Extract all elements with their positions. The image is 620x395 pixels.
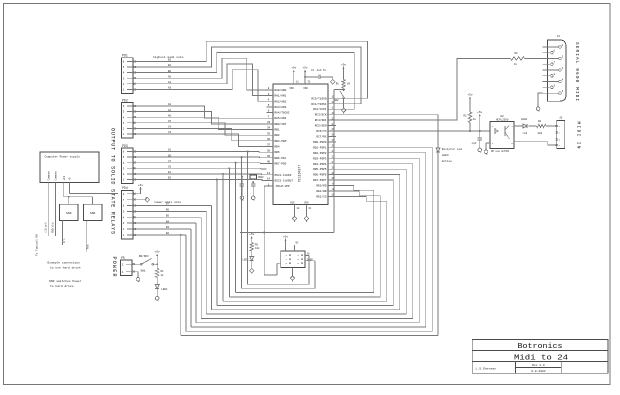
svg-text:1k: 1k	[161, 273, 165, 277]
svg-text:B0: B0	[168, 70, 172, 73]
svg-text:VDD: VDD	[289, 87, 294, 90]
svg-text:A4: A4	[168, 81, 172, 84]
svg-text:+5v: +5v	[341, 63, 346, 66]
svg-text:39: 39	[267, 155, 271, 158]
svg-text:SSR switches Power: SSR switches Power	[49, 279, 82, 283]
svg-text:C3: C3	[168, 131, 172, 134]
svg-text:PD2: PD2	[122, 98, 128, 102]
svg-text:C7: C7	[168, 160, 172, 163]
svg-text:RA4/T0CKI: RA4/T0CKI	[275, 111, 290, 115]
svg-text:A1: A1	[168, 109, 172, 112]
svg-text:1k: 1k	[514, 62, 518, 66]
svg-text:RD7-PSP7: RD7-PSP7	[313, 179, 327, 182]
svg-text:VDD: VDD	[303, 87, 308, 90]
svg-text:RD0-PSP0: RD0-PSP0	[313, 141, 327, 144]
svg-text:D0: D0	[168, 154, 172, 157]
svg-text:PD3: PD3	[122, 144, 128, 148]
svg-text:RB1: RB1	[275, 129, 280, 132]
svg-text:RB4: RB4	[275, 146, 280, 149]
svg-text:RB2: RB2	[275, 134, 280, 137]
svg-text:38: 38	[267, 149, 271, 152]
svg-text:Rev 1.0: Rev 1.0	[532, 364, 545, 367]
svg-text:RC1/T1OSI: RC1/T1OSI	[311, 102, 326, 106]
svg-text:A2: A2	[168, 103, 172, 106]
svg-text:.1uF: .1uF	[471, 142, 477, 145]
svg-text:R2: R2	[463, 115, 467, 118]
svg-text:LED3: LED3	[442, 154, 449, 157]
svg-text:RC3/SCK: RC3/SCK	[315, 113, 327, 117]
svg-text:RB5: RB5	[275, 151, 280, 154]
svg-text:33: 33	[267, 121, 271, 124]
svg-text:J4: J4	[557, 35, 561, 38]
svg-text:To Typical HD: To Typical HD	[35, 234, 39, 256]
svg-text:RB7-PGD: RB7-PGD	[275, 163, 287, 166]
svg-text:+12: +12	[63, 175, 66, 180]
svg-text:+5v: +5v	[155, 251, 160, 254]
svg-text:SERIAL 9600 MIDI: SERIAL 9600 MIDI	[574, 42, 579, 101]
svg-text:RD5-PSP5: RD5-PSP5	[313, 168, 327, 171]
svg-text:red: red	[523, 131, 528, 135]
svg-text:+5v: +5v	[249, 233, 254, 236]
svg-text:ON/OFF: ON/OFF	[139, 254, 149, 258]
svg-text:L.S.Sherman: L.S.Sherman	[476, 367, 497, 371]
svg-text:RD3-PSP3: RD3-PSP3	[313, 157, 327, 160]
svg-text:Midi to 24: Midi to 24	[514, 354, 569, 362]
svg-text:+5v: +5v	[138, 184, 143, 187]
svg-text:to hard drive.: to hard drive.	[50, 284, 75, 288]
svg-text:C6: C6	[168, 166, 172, 169]
svg-text:PD1: PD1	[122, 54, 128, 58]
svg-text:RE0/RD: RE0/RD	[316, 184, 326, 188]
svg-text:R4: R4	[538, 120, 542, 123]
svg-text:10k: 10k	[255, 247, 260, 250]
svg-text:Active: Active	[442, 159, 452, 163]
svg-text:RC5/SDO: RC5/SDO	[315, 124, 327, 128]
svg-text:RC7/RX: RC7/RX	[316, 135, 326, 139]
svg-text:+5: +5	[68, 177, 71, 181]
svg-text:C3 .1uF 5v: C3 .1uF 5v	[311, 69, 327, 72]
svg-text:+5v: +5v	[291, 67, 296, 70]
svg-text:RE2/CS: RE2/CS	[316, 195, 326, 199]
svg-text:B1: B1	[168, 64, 172, 67]
svg-text:4MHz: 4MHz	[258, 176, 264, 179]
svg-text:GND(blk): GND(blk)	[52, 221, 55, 233]
svg-text:A3: A3	[168, 87, 172, 90]
svg-text:PD4: PD4	[122, 186, 128, 190]
svg-text:RB0/INT: RB0/INT	[275, 122, 287, 126]
svg-text:SSR: SSR	[90, 212, 96, 215]
svg-text:Botronics: Botronics	[518, 343, 563, 351]
svg-text:DP use W/PIN: DP use W/PIN	[491, 150, 510, 153]
svg-text:U2: U2	[500, 115, 504, 118]
svg-text:C5: C5	[168, 120, 172, 123]
svg-text:A5: A5	[168, 75, 172, 78]
svg-text:-MCLR-VPP: -MCLR-VPP	[275, 185, 290, 188]
svg-text:OSC1-CLKIN: OSC1-CLKIN	[275, 174, 292, 177]
svg-text:R1: R1	[161, 270, 165, 273]
svg-text:A0: A0	[168, 114, 172, 117]
svg-text:P5: P5	[121, 256, 125, 260]
svg-text:Resistor Led: Resistor Led	[442, 147, 462, 151]
svg-text:Example connection: Example connection	[48, 261, 81, 265]
svg-text:C4: C4	[168, 126, 172, 129]
svg-text:RE1/WR: RE1/WR	[316, 189, 326, 193]
svg-text:SW2: SW2	[334, 99, 339, 102]
svg-text:13: 13	[267, 172, 271, 175]
svg-text:PIC16F877: PIC16F877	[298, 165, 302, 182]
svg-text:SSR: SSR	[66, 212, 72, 215]
svg-text:OSC2-CLKOUT: OSC2-CLKOUT	[275, 180, 294, 183]
svg-text:R3: R3	[515, 52, 519, 55]
svg-text:RB3-PGM: RB3-PGM	[275, 140, 287, 143]
svg-text:RC2/CCP1: RC2/CCP1	[313, 107, 327, 111]
svg-text:LED1: LED1	[161, 288, 168, 291]
svg-text:1k: 1k	[473, 118, 477, 121]
svg-text:RA5/AN4: RA5/AN4	[275, 116, 287, 120]
svg-text:+5v: +5v	[283, 235, 288, 238]
svg-text:37: 37	[267, 144, 271, 147]
svg-text:VSS: VSS	[304, 201, 309, 204]
svg-text:34: 34	[267, 127, 271, 130]
svg-text:R6: R6	[336, 83, 340, 86]
svg-text:J3: J3	[559, 117, 563, 120]
svg-text:RD6-PSP6: RD6-PSP6	[313, 174, 327, 177]
svg-text:35: 35	[267, 132, 271, 135]
svg-text:J6: J6	[307, 253, 311, 256]
svg-text:RB6-PGC: RB6-PGC	[275, 157, 287, 160]
svg-text:Computer Power supply: Computer Power supply	[45, 154, 81, 158]
svg-text:+5v: +5v	[477, 111, 482, 114]
svg-text:1M: 1M	[347, 83, 351, 86]
svg-text:+5v: +5v	[303, 67, 308, 70]
svg-text:RC6/TX: RC6/TX	[316, 129, 326, 133]
svg-text:SW1: SW1	[141, 270, 146, 273]
svg-text:40: 40	[267, 161, 271, 164]
svg-text:RD1-PSP1: RD1-PSP1	[313, 146, 327, 149]
svg-text:36: 36	[267, 138, 271, 141]
svg-text:D1: D1	[168, 149, 172, 152]
svg-text:RA2/AN2: RA2/AN2	[275, 99, 287, 103]
svg-text:LED4: LED4	[521, 118, 528, 121]
svg-text:RA3/AN3: RA3/AN3	[275, 105, 287, 109]
svg-text:14: 14	[267, 178, 271, 181]
svg-text:RD2-PSP2: RD2-PSP2	[313, 152, 327, 155]
svg-text:B2: B2	[168, 59, 172, 62]
svg-text:HCPL2300: HCPL2300	[496, 119, 509, 122]
svg-text:RA0/AN0: RA0/AN0	[275, 88, 287, 92]
svg-text:Grn: Grn	[63, 238, 66, 243]
svg-text:Common: Common	[47, 171, 50, 181]
svg-text:VSS: VSS	[290, 201, 295, 204]
svg-text:Red: Red	[87, 244, 90, 249]
svg-text:E0: E0	[168, 177, 172, 180]
svg-text:RD4-PSP4: RD4-PSP4	[313, 163, 327, 166]
svg-text:RC0/T1OSO: RC0/T1OSO	[311, 96, 326, 100]
svg-text:to use hard drive: to use hard drive	[50, 266, 81, 270]
svg-text:E1: E1	[168, 171, 172, 174]
svg-text:Common: Common	[54, 171, 57, 181]
svg-text:6-8-2003: 6-8-2003	[531, 370, 546, 373]
svg-text:+12(yel): +12(yel)	[45, 221, 48, 233]
svg-text:220: 220	[538, 132, 543, 135]
svg-text:POWER: POWER	[111, 257, 117, 277]
svg-text:OUTPUT TO SOLID STATE RELAYS: OUTPUT TO SOLID STATE RELAYS	[109, 128, 115, 234]
svg-text:RA1/AN1: RA1/AN1	[275, 94, 287, 98]
svg-text:+5v: +5v	[467, 94, 472, 97]
svg-text:RC4/SDI: RC4/SDI	[315, 118, 327, 122]
